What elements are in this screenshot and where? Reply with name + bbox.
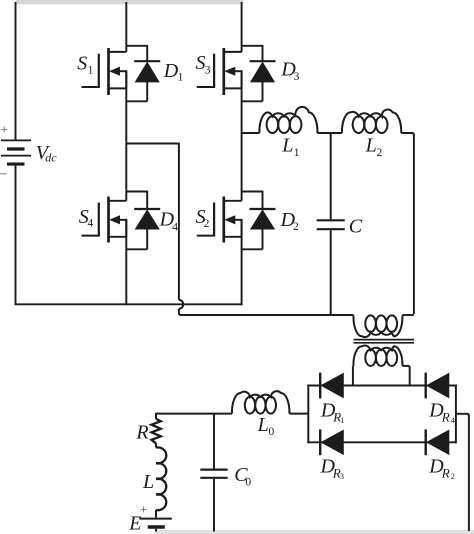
svg-text:4: 4 [451,416,455,425]
transistor S3 [197,48,243,95]
svg-text:1: 1 [88,64,94,76]
wire leg2 bottom segment [241,220,243,305]
battery Vdc plate - (short thick) [7,147,25,150]
svg-text:4: 4 [172,222,178,234]
wire primary right lead [402,314,414,316]
wire L1 to node [317,132,342,134]
wire leg2 drain segment [241,2,243,52]
wire leg1 drain segment [125,2,127,52]
capacitor C0 plate top [200,469,227,471]
wire R top lead [155,414,157,448]
battery Vdc plate + (long) 2 [1,155,31,157]
battery Vdc plate + (long) [1,139,31,141]
capacitor C lead bottom [330,230,332,315]
svg-text:R: R [441,410,450,425]
svg-text:R: R [441,465,450,480]
transistor S2 [197,197,243,243]
svg-text:3: 3 [294,71,300,83]
svg-text:2: 2 [204,218,210,230]
wire left rail lower [15,166,17,306]
capacitor C0 plate bottom [200,477,227,479]
svg-text:−: − [0,168,8,183]
wire L0 to rectifier [289,413,309,415]
wire (bottom return rail, clipped at image edge) [155,530,474,534]
diode DR1 [319,373,321,399]
battery E plate + (long) [140,518,172,520]
wire leg1 middle segment [125,71,127,201]
svg-text:3: 3 [205,64,211,76]
wire left rail upper [15,2,17,140]
svg-text:2: 2 [451,472,455,481]
wire bridge bottom rail [16,303,243,305]
transformer primary winding [353,315,402,337]
transistor S4 [82,197,128,243]
inductor L1 [259,107,317,133]
wire C0 top lead [213,414,215,469]
svg-text:2: 2 [377,147,383,159]
wire leg2 middle segment [241,71,243,201]
resistor R [152,419,161,443]
wire load top bus [155,413,232,415]
svg-text:L: L [142,471,154,493]
svg-text:dc: dc [45,151,57,165]
svg-text:4: 4 [88,218,94,230]
svg-text:C: C [349,215,363,237]
svg-text:1: 1 [178,72,184,84]
wire secondary right lead [402,366,409,387]
svg-text:R: R [135,421,148,443]
svg-text:0: 0 [245,476,251,488]
svg-text:0: 0 [269,426,275,438]
diode D3 (antiparallel) [242,45,276,101]
svg-text:1: 1 [340,416,344,425]
svg-text:3: 3 [340,472,344,481]
battery Vdc plate - (short thick) 2 [7,163,25,166]
wire midpoint1 branch [126,143,179,145]
wire rectifier bottom rail [307,441,456,443]
svg-text:S: S [77,53,87,75]
transistor S1 [82,48,128,95]
svg-text:L: L [365,135,377,157]
inductor L2 [342,109,401,133]
diode D4 (antiparallel) [126,191,160,250]
svg-text:E: E [128,513,141,534]
svg-text:L: L [281,135,293,157]
svg-text:L: L [257,414,269,436]
wire C0 bottom lead [213,479,215,532]
inductor L [156,447,166,510]
wire rectifier left rail [307,385,309,444]
svg-text:2: 2 [293,221,299,233]
wire L2 to right elbow [401,133,414,314]
wire midpoint2 to L1 [242,132,260,134]
svg-text:+: + [1,122,8,137]
capacitor C plate bottom [317,228,345,230]
transformer secondary winding [353,346,402,366]
wire secondary left lead [352,366,354,387]
wire rectifier right rail [455,385,457,444]
transformer core [354,339,415,341]
diode DR4 [425,373,427,399]
capacitor C plate top [317,219,345,221]
wire midpoint1 down to lower bus [179,309,354,315]
wire hop over bottom rail [179,300,183,309]
wire leg1 bottom segment [125,220,127,305]
wire L to E [155,510,157,518]
wire rectifier top rail [307,385,456,387]
diode DR2 [425,429,427,455]
wire E to bottom rail [155,529,157,532]
wire output stub [456,414,469,531]
svg-text:D: D [163,60,179,82]
battery E plate - (short thick) [148,525,165,528]
diode D1 (antiparallel) [126,45,160,101]
svg-text:1: 1 [294,147,300,159]
diode D2 (antiparallel) [242,191,276,250]
capacitor C lead top [330,132,332,219]
diode DR3 [319,429,321,455]
inductor L0 [232,391,289,413]
wire (top rail, clipped at image edge) [16,0,244,4]
